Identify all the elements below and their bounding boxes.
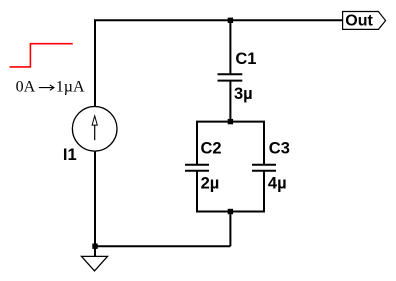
- capacitor C3: [252, 165, 276, 171]
- step waveform annotation (red): [10, 44, 73, 67]
- node junction at top of C1: [228, 18, 233, 23]
- svg-text:C2: C2: [201, 140, 222, 158]
- net flag Out: [343, 12, 386, 30]
- svg-text:3µ: 3µ: [234, 85, 253, 103]
- svg-text:0A: 0A: [16, 79, 36, 96]
- wire: bottom horizontal to ground node: [95, 245, 230, 247]
- svg-text:C1: C1: [235, 50, 256, 68]
- svg-text:4µ: 4µ: [268, 174, 287, 192]
- svg-text:I1: I1: [63, 146, 77, 164]
- capacitor C2: [185, 165, 209, 171]
- wire: left vertical below current source: [94, 151, 96, 257]
- wire: bottom stub down from junction: [229, 212, 231, 247]
- svg-text:Out: Out: [345, 13, 373, 30]
- current source I1: [72, 107, 117, 152]
- ground: [82, 256, 108, 271]
- wire: C1 bottom stub: [229, 81, 231, 122]
- node junction at parallel bottom rail: [228, 209, 233, 214]
- node junction at parallel top rail: [228, 119, 233, 124]
- svg-text:1µA: 1µA: [56, 79, 85, 96]
- wire: parallel bottom rail with branch rises: [197, 171, 264, 212]
- wire: C1 top stub: [229, 20, 231, 74]
- svg-text:C3: C3: [269, 140, 290, 158]
- wire: top rail from left branch to Out flag: [95, 20, 343, 107]
- capacitor C1: [218, 74, 243, 80]
- svg-text:2µ: 2µ: [201, 174, 220, 192]
- node junction at ground: [92, 244, 97, 249]
- wire: parallel top rail with branch drops: [197, 122, 264, 165]
